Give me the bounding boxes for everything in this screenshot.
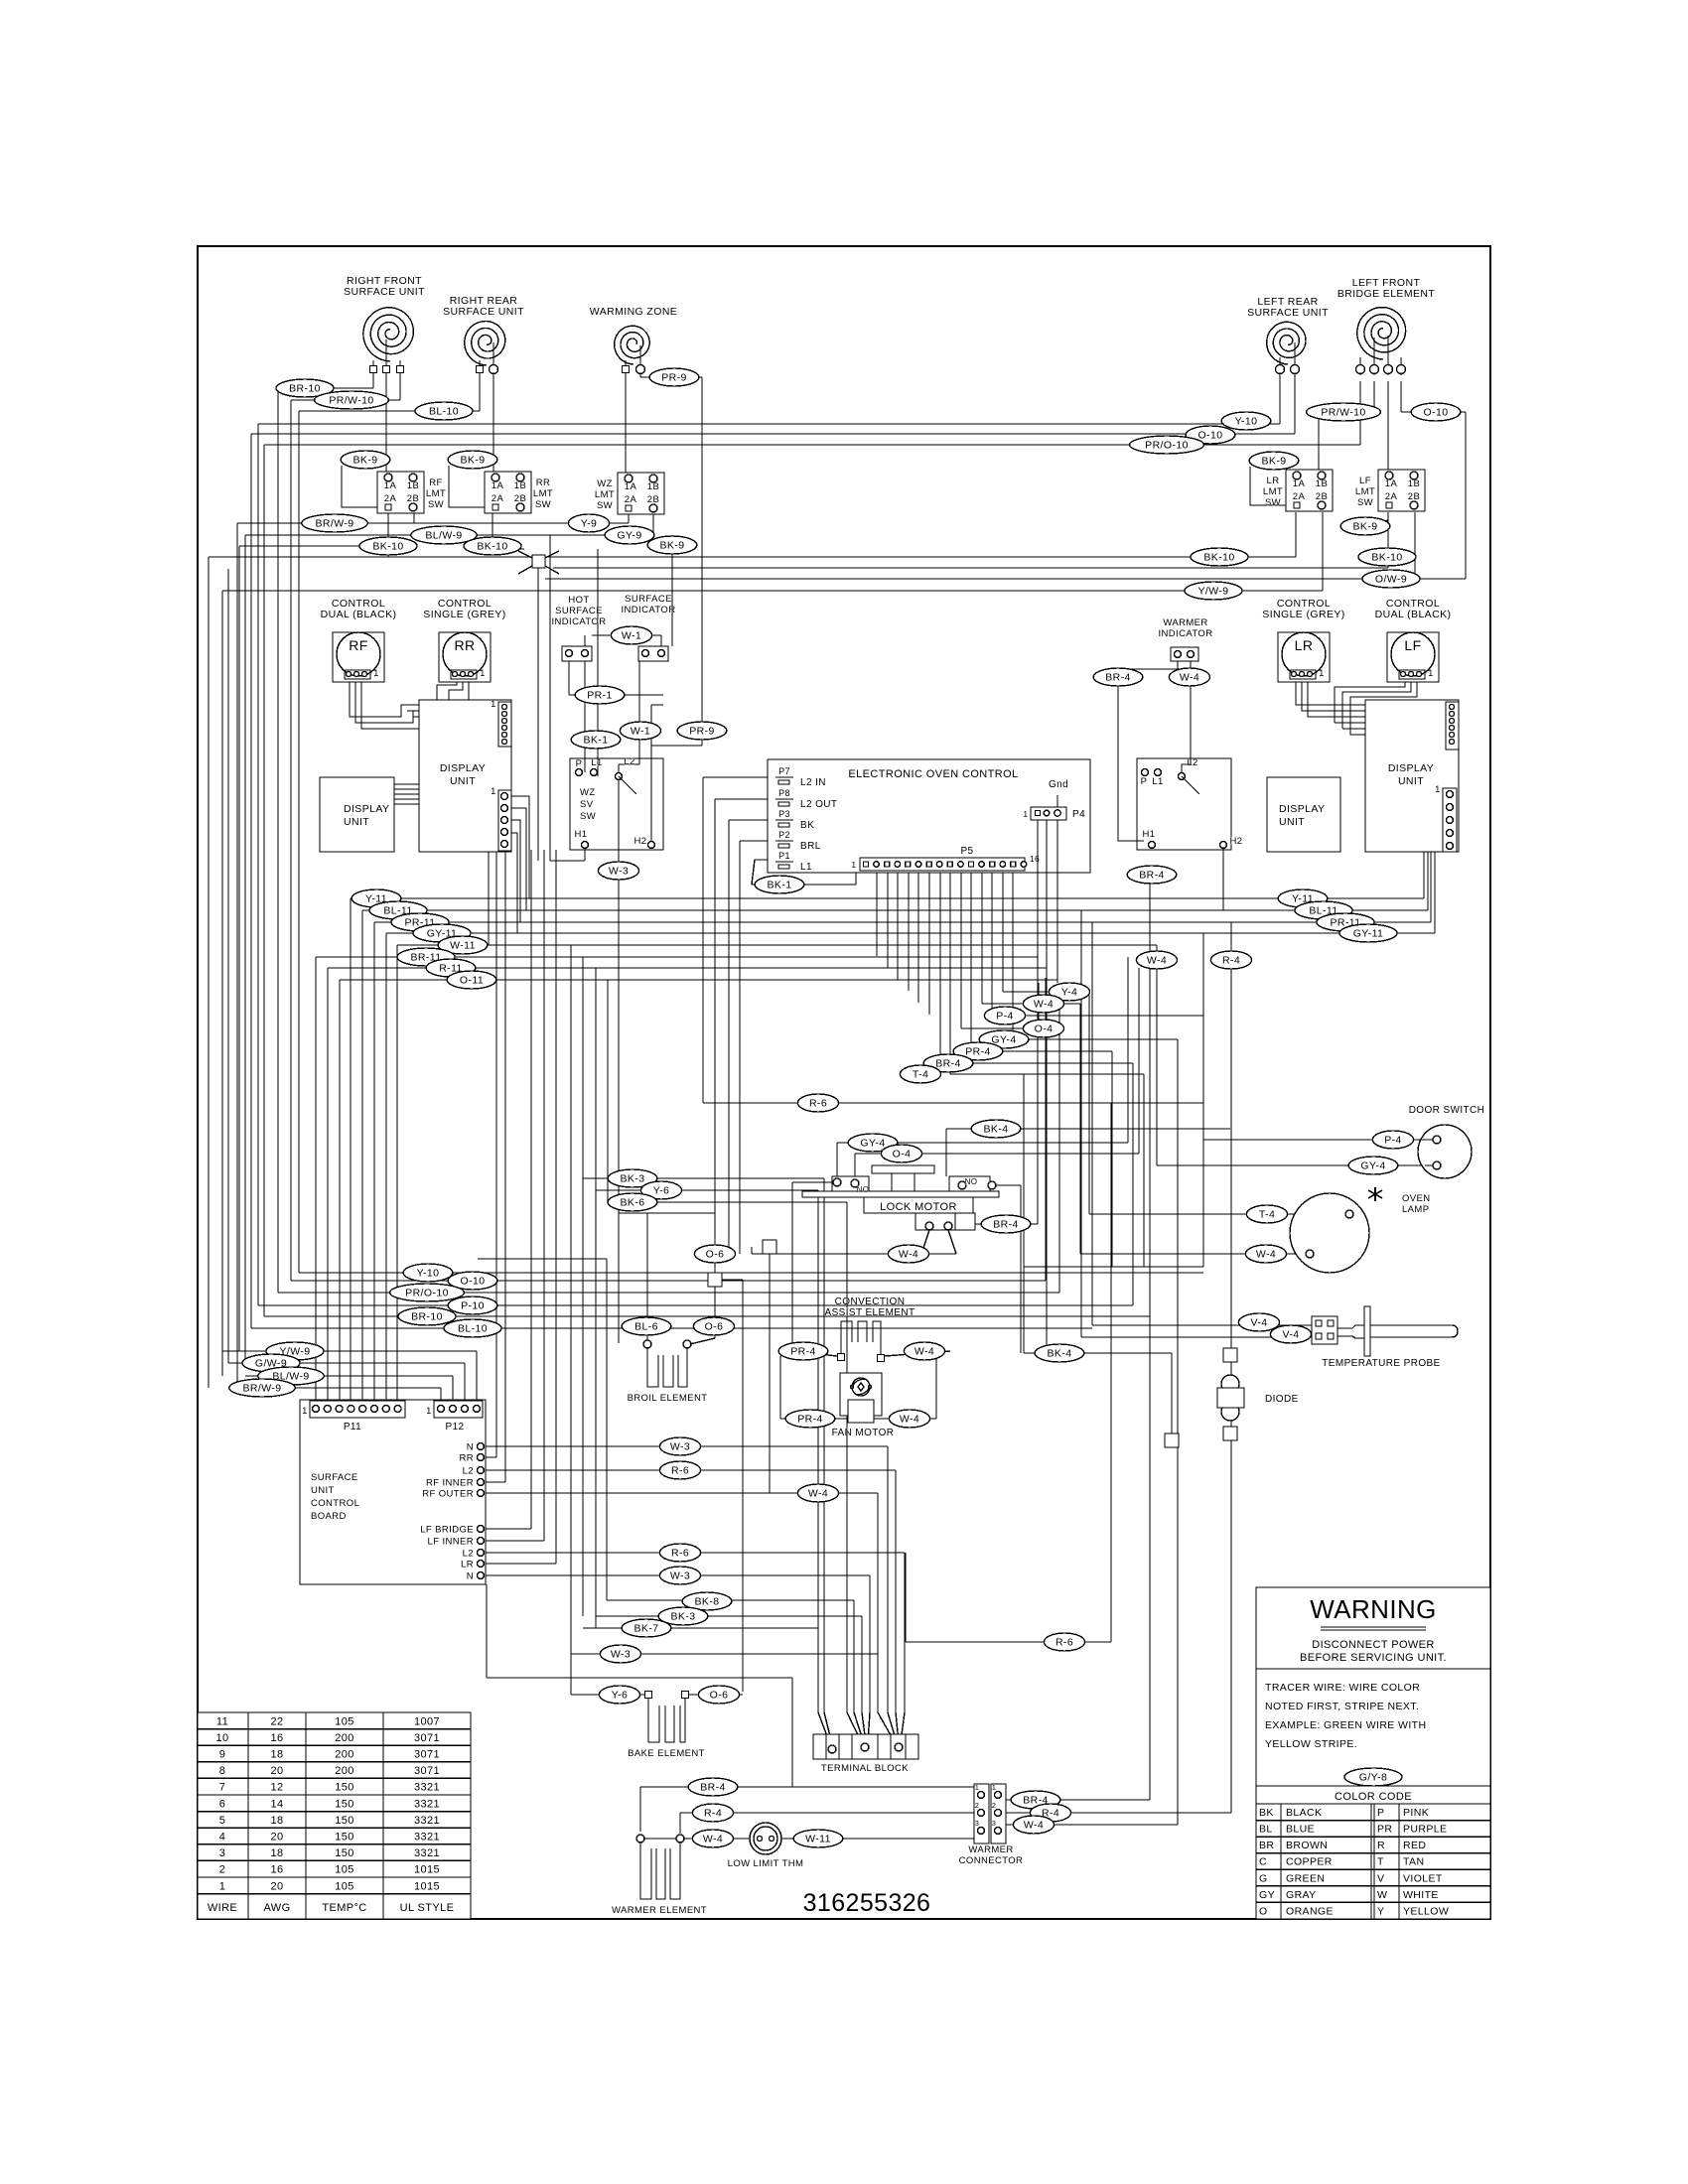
surface unit control board (300, 1400, 486, 1584)
svg-text:TERMINAL BLOCK: TERMINAL BLOCK (821, 1763, 909, 1774)
svg-text:SV: SV (580, 799, 594, 810)
wire center verticals to TB (887, 1446, 889, 1700)
wire label BK-9 (1249, 452, 1299, 470)
wire label BL-10 (444, 1319, 501, 1337)
svg-text:BR-4: BR-4 (935, 1058, 961, 1070)
wire LR control drop (1296, 670, 1311, 705)
svg-text:P5: P5 (960, 846, 973, 857)
wire O-4 lock row (855, 1153, 1139, 1155)
svg-text:SURFACE: SURFACE (311, 1472, 358, 1483)
svg-text:LMT: LMT (533, 488, 553, 499)
svg-text:BK-3: BK-3 (671, 1611, 696, 1623)
wire G/W-9 bottom row (228, 1362, 465, 1364)
wire label BL-11 (1295, 901, 1352, 919)
display unit left pin strip (498, 790, 511, 851)
wire W-4 warmer row (640, 1838, 751, 1840)
svg-text:2B: 2B (407, 493, 419, 504)
WZ SV SW switch box (570, 756, 663, 850)
wire label PR/O-10 (390, 1284, 465, 1301)
wire RR unit leads (479, 360, 481, 365)
wire P drop (584, 635, 586, 772)
svg-text:Y-6: Y-6 (653, 1185, 670, 1197)
wire LF BRIDGE up (481, 1528, 531, 1530)
svg-text:P11: P11 (344, 1422, 361, 1433)
svg-text:2: 2 (975, 1801, 980, 1810)
wire label GY-4 (979, 1030, 1029, 1048)
surface element spiral (363, 308, 414, 361)
svg-text:2A: 2A (384, 493, 397, 504)
svg-text:1: 1 (373, 668, 378, 678)
wire label BR-4 (981, 1215, 1031, 1233)
svg-text:WHITE: WHITE (1403, 1889, 1439, 1901)
WZ LMT SW limit switch (595, 473, 664, 514)
wire BL-11 row (362, 909, 1428, 911)
connector P5 (851, 846, 1040, 871)
svg-text:R: R (1377, 1840, 1385, 1851)
svg-text:LF INNER: LF INNER (428, 1537, 474, 1548)
svg-text:LAMP: LAMP (1402, 1204, 1429, 1215)
svg-text:PR-4: PR-4 (790, 1346, 816, 1358)
svg-text:20: 20 (270, 1880, 283, 1892)
wire label W-11 (438, 936, 488, 954)
wire label W-3 (600, 1645, 640, 1663)
svg-text:BK-1: BK-1 (768, 880, 792, 891)
svg-text:R-6: R-6 (671, 1465, 689, 1477)
svg-text:200: 200 (335, 1765, 354, 1777)
svg-text:8: 8 (219, 1765, 226, 1777)
svg-text:BK-7: BK-7 (634, 1623, 659, 1635)
wire label BK-6 (608, 1193, 657, 1211)
wire BK-8 row (607, 1599, 854, 1601)
svg-text:SURFACE UNIT: SURFACE UNIT (443, 306, 524, 318)
wire R-4 warmer row (680, 1812, 976, 1814)
wire BR-11 row (316, 956, 1038, 958)
svg-text:SINGLE (GREY): SINGLE (GREY) (423, 609, 505, 620)
svg-text:BK-9: BK-9 (1353, 521, 1378, 533)
svg-text:T-4: T-4 (913, 1069, 928, 1081)
svg-text:V: V (1377, 1872, 1384, 1884)
svg-text:2: 2 (992, 1801, 997, 1810)
wire label R-4 (692, 1804, 733, 1822)
wire BR/W-9 bottom row (237, 1387, 441, 1389)
wire junction row BK-10 right (388, 556, 1296, 558)
svg-text:PR/W-10: PR/W-10 (1321, 407, 1365, 419)
svg-text:3: 3 (219, 1847, 226, 1859)
svg-text:W: W (1377, 1889, 1387, 1901)
wire right box leads (1222, 849, 1224, 910)
wire label V-4 (1238, 1313, 1279, 1331)
svg-text:BK-4: BK-4 (1048, 1348, 1072, 1360)
wire Y-4 row (1003, 991, 1089, 993)
svg-text:W-11: W-11 (450, 940, 476, 952)
wire GY-11 row (386, 932, 1435, 934)
svg-text:BAKE ELEMENT: BAKE ELEMENT (628, 1748, 705, 1759)
svg-text:LMT: LMT (1263, 486, 1283, 497)
svg-text:V-4: V-4 (1251, 1317, 1268, 1329)
wire BK-9 hook RF (342, 466, 381, 507)
wire label P-4 (984, 1007, 1025, 1024)
wire label BR-11 (397, 948, 455, 966)
wire right sq junction tap (769, 1254, 771, 1493)
svg-text:W-4: W-4 (1256, 1249, 1276, 1261)
svg-text:O-10: O-10 (1198, 430, 1223, 442)
svg-text:H2: H2 (634, 836, 647, 847)
svg-text:SURFACE UNIT: SURFACE UNIT (344, 286, 425, 298)
control RR (423, 598, 505, 682)
wire label BK-10 (1358, 548, 1416, 566)
svg-text:W-4: W-4 (899, 1249, 918, 1261)
svg-text:DISPLAY: DISPLAY (1388, 762, 1434, 774)
svg-text:SURFACE: SURFACE (625, 594, 672, 605)
svg-text:SW: SW (1357, 497, 1373, 508)
wire BK-7 row (583, 1627, 818, 1629)
svg-text:W-4: W-4 (914, 1346, 934, 1358)
wire label PR-9 (677, 722, 727, 740)
connector square b (1223, 1427, 1237, 1440)
svg-text:CONVECTION: CONVECTION (835, 1297, 906, 1307)
wire label BR/W-9 (302, 514, 367, 532)
svg-text:RED: RED (1403, 1840, 1426, 1851)
svg-text:W-4: W-4 (1024, 1820, 1044, 1832)
svg-text:18: 18 (270, 1749, 283, 1761)
wire label Y-9 (568, 514, 609, 532)
svg-text:BK-9: BK-9 (1262, 456, 1287, 468)
svg-text:BROIL ELEMENT: BROIL ELEMENT (628, 1393, 708, 1404)
SUCB pins (420, 1442, 484, 1582)
warmer switch box right (1137, 757, 1242, 850)
svg-text:11: 11 (216, 1715, 228, 1727)
wire LR unit leads (1279, 357, 1281, 381)
convection assist element (825, 1297, 915, 1362)
wire label PR-11 (1317, 913, 1374, 931)
svg-text:GY: GY (1259, 1889, 1275, 1901)
wire broil feeder verticals (570, 945, 572, 1695)
wire broil sq junction tap (722, 1279, 743, 1281)
wire L2 row2 (481, 1552, 905, 1554)
svg-text:P-10: P-10 (461, 1300, 485, 1312)
svg-text:G: G (1259, 1872, 1268, 1884)
svg-text:L2: L2 (624, 756, 634, 767)
svg-text:UNIT: UNIT (450, 775, 476, 787)
wire label BK-10 (359, 537, 417, 555)
wire label PR-9 (649, 368, 699, 386)
wire BK-4 lock row (946, 1128, 1230, 1130)
wire RF OUTER row (481, 1492, 878, 1494)
wire W-4 right vertical (1156, 945, 1158, 1165)
svg-text:RF OUTER: RF OUTER (422, 1489, 474, 1500)
svg-text:3321: 3321 (414, 1782, 440, 1794)
svg-text:16: 16 (270, 1732, 283, 1744)
svg-text:P1: P1 (778, 851, 790, 861)
svg-text:LR: LR (1295, 637, 1314, 653)
svg-text:TRACER WIRE: WIRE COLOR: TRACER WIRE: WIRE COLOR (1265, 1682, 1420, 1694)
wire label PR-1 (575, 686, 625, 704)
svg-text:105: 105 (335, 1864, 354, 1876)
wire label BK-10 (1191, 548, 1248, 566)
wire BR-10 bottom row (264, 1315, 1150, 1317)
wire label R-6 (797, 1094, 838, 1112)
svg-text:BR-4: BR-4 (1105, 672, 1131, 684)
wire BK-9 SI vertical (671, 535, 673, 646)
svg-text:R-6: R-6 (809, 1098, 827, 1110)
wire P3 BK (729, 819, 789, 821)
svg-text:VIOLET: VIOLET (1403, 1872, 1443, 1884)
svg-text:W-3: W-3 (670, 1441, 690, 1453)
svg-text:105: 105 (335, 1715, 354, 1727)
svg-text:W-1: W-1 (622, 630, 641, 642)
svg-text:BK-9: BK-9 (660, 540, 685, 552)
svg-text:150: 150 (335, 1832, 354, 1843)
wire T-4 lamp row (1089, 1213, 1345, 1215)
svg-text:316255326: 316255326 (803, 1889, 931, 1917)
svg-text:INDICATOR: INDICATOR (1159, 628, 1213, 639)
warning box (1256, 1587, 1490, 1919)
wire label BR-4 (1127, 866, 1177, 884)
warmer connector (959, 1783, 1024, 1866)
wire label W-4 (797, 1484, 838, 1502)
svg-text:P: P (1377, 1807, 1384, 1819)
wire R-6 lock row (703, 1102, 1203, 1104)
wire BK-10 left vertical (387, 512, 389, 557)
svg-text:BRIDGE ELEMENT: BRIDGE ELEMENT (1337, 288, 1436, 300)
wire row 1276 (1024, 1266, 1203, 1268)
svg-text:1: 1 (491, 699, 495, 709)
wire label GY-11 (413, 924, 471, 942)
wire label O/W-9 (1362, 570, 1420, 588)
ribbon display unit small-left (394, 783, 419, 785)
wire label Y-10 (403, 1264, 453, 1282)
svg-text:1B: 1B (647, 481, 659, 492)
diode (1217, 1375, 1299, 1421)
wire W-4 lock row (752, 1253, 956, 1255)
surface element spiral (1267, 322, 1306, 364)
wire P8 L2 OUT (715, 798, 789, 800)
wire BK-9 hook LF (1370, 512, 1388, 526)
svg-text:W-4: W-4 (703, 1834, 723, 1845)
door switch (1409, 1105, 1485, 1178)
wire label W-4 (692, 1830, 733, 1847)
svg-text:2A: 2A (625, 494, 637, 505)
svg-text:COLOR CODE: COLOR CODE (1335, 1791, 1412, 1803)
svg-text:BL-6: BL-6 (634, 1321, 658, 1333)
svg-text:150: 150 (335, 1782, 354, 1794)
svg-text:BEFORE SERVICING UNIT.: BEFORE SERVICING UNIT. (1300, 1652, 1447, 1664)
svg-text:BK-10: BK-10 (1371, 552, 1402, 564)
svg-text:3321: 3321 (414, 1832, 440, 1843)
wire BR/W-9 Y-9 row (237, 522, 629, 524)
svg-text:LR: LR (461, 1560, 474, 1570)
wire label BK-3 (608, 1169, 657, 1187)
wire label BK-1 (571, 731, 621, 749)
wire label Y-4 (1049, 983, 1089, 1001)
svg-text:YELLOW: YELLOW (1403, 1905, 1449, 1917)
svg-text:YELLOW STRIPE.: YELLOW STRIPE. (1265, 1738, 1357, 1750)
wire gauge table (198, 1712, 471, 1919)
svg-text:2B: 2B (1316, 491, 1328, 502)
wire label W-3 (659, 1567, 700, 1584)
connector P12 (426, 1401, 483, 1433)
wire O/W-9 row (545, 578, 1466, 580)
svg-text:RF: RF (429, 478, 442, 488)
svg-text:C: C (1259, 1856, 1267, 1868)
control RF (321, 598, 397, 682)
svg-text:GREEN: GREEN (1286, 1872, 1325, 1884)
svg-text:BR/W-9: BR/W-9 (243, 1383, 282, 1395)
wire PR-1 to L1 (597, 695, 599, 776)
wire H2 vertical (650, 705, 652, 841)
wire Y-10 bottom row (299, 1272, 1203, 1274)
wire label O-10 (1411, 403, 1461, 421)
svg-text:PR: PR (1377, 1824, 1392, 1836)
svg-text:3071: 3071 (414, 1765, 440, 1777)
wire label T-4 (900, 1065, 940, 1083)
svg-text:W-3: W-3 (611, 1649, 631, 1661)
svg-text:H2: H2 (1230, 836, 1243, 847)
control LF (1375, 598, 1452, 682)
svg-text:1B: 1B (514, 480, 526, 491)
wire junction drop (537, 568, 539, 861)
fan motor (832, 1373, 895, 1438)
svg-text:1B: 1B (1316, 478, 1328, 489)
wire label BK-7 (622, 1619, 671, 1637)
svg-text:NOTED FIRST, STRIPE NEXT.: NOTED FIRST, STRIPE NEXT. (1265, 1701, 1419, 1712)
wire T-4 row (950, 1073, 1144, 1075)
wire label BL/W-9 (258, 1367, 324, 1385)
wire junction row 2 (553, 567, 1388, 569)
wire label W-4 (1023, 995, 1063, 1013)
svg-text:3: 3 (975, 1819, 980, 1828)
wire BL-10 bottom row (251, 1327, 1092, 1329)
wire label PR/W-10 (1307, 403, 1381, 421)
svg-text:9: 9 (219, 1749, 226, 1761)
svg-text:L2 IN: L2 IN (800, 777, 826, 788)
wire LF feed (1387, 381, 1389, 470)
wire label O-11 (447, 971, 496, 989)
wire P1 L1 loop (752, 860, 856, 885)
wire RF INNER up (481, 1481, 505, 1483)
wire L2 row (481, 1469, 896, 1471)
wire label W-4 (904, 1342, 944, 1360)
LF LMT SW limit switch (1355, 470, 1425, 511)
wire WZ unit leads (625, 360, 627, 365)
wire label W-4 (889, 1410, 929, 1428)
svg-text:BROWN: BROWN (1286, 1840, 1328, 1851)
wire W-4 row (982, 1003, 1080, 1005)
wire P2 BRL (740, 840, 789, 842)
svg-text:L2: L2 (463, 1466, 474, 1477)
wire PR-9 into junction (651, 745, 702, 747)
svg-text:RR: RR (536, 478, 551, 488)
wire label O-6 (698, 1686, 739, 1704)
wire label BL-6 (622, 1317, 671, 1335)
wire label BR/W-9 (229, 1379, 295, 1397)
svg-text:Y-6: Y-6 (612, 1690, 629, 1702)
wire label GY-4 (1348, 1157, 1398, 1174)
svg-text:BK-10: BK-10 (372, 541, 403, 553)
svg-text:TEMP°C: TEMP°C (322, 1902, 366, 1914)
svg-text:BRL: BRL (800, 841, 821, 852)
svg-text:O-10: O-10 (461, 1276, 486, 1288)
wire BR-4 row (940, 1062, 1133, 1064)
svg-text:DUAL (BLACK): DUAL (BLACK) (321, 609, 397, 620)
wire W-3 vertical (618, 776, 620, 1213)
svg-text:PR/O-10: PR/O-10 (1145, 440, 1189, 452)
svg-text:150: 150 (335, 1815, 354, 1827)
svg-text:H1: H1 (575, 829, 588, 840)
svg-text:O-10: O-10 (1424, 407, 1449, 419)
warmer indicator (1159, 617, 1213, 661)
svg-text:1015: 1015 (414, 1864, 440, 1876)
wire BR-4 right vertical (1149, 875, 1151, 1800)
surface indicator (622, 594, 676, 661)
svg-text:COPPER: COPPER (1286, 1856, 1333, 1868)
svg-text:W-1: W-1 (631, 726, 650, 738)
svg-text:P2: P2 (778, 830, 790, 840)
wire label BK-9 (1340, 517, 1390, 535)
wire Y-6 row upper (596, 1189, 818, 1191)
svg-text:INDICATOR: INDICATOR (552, 616, 607, 627)
wire L1 feed upper (597, 549, 599, 695)
wire label BR-4 (1093, 668, 1143, 686)
wire Y-11 row (351, 897, 1424, 899)
wire P5 to 4-series turns (939, 873, 941, 1063)
svg-text:R-4: R-4 (1222, 955, 1240, 967)
wire Y/W-9 row (222, 590, 1323, 592)
svg-text:P-4: P-4 (996, 1011, 1014, 1023)
wire N row2 (481, 1574, 870, 1576)
svg-text:BK-9: BK-9 (461, 455, 486, 467)
wire label BK-3 (658, 1607, 708, 1625)
broil element (628, 1340, 708, 1404)
svg-text:O/W-9: O/W-9 (1375, 574, 1407, 586)
svg-text:TAN: TAN (1403, 1856, 1424, 1868)
bake element (628, 1692, 705, 1760)
svg-text:LF BRIDGE: LF BRIDGE (420, 1525, 474, 1536)
svg-text:W-3: W-3 (609, 866, 629, 878)
svg-text:GRAY: GRAY (1286, 1889, 1317, 1901)
svg-text:SW: SW (1265, 497, 1281, 508)
svg-text:DISCONNECT POWER: DISCONNECT POWER (1312, 1639, 1435, 1651)
svg-text:2B: 2B (1408, 491, 1420, 502)
wire top bus O-10 (251, 433, 1295, 435)
svg-text:P4: P4 (1072, 809, 1085, 820)
svg-text:P: P (576, 758, 583, 769)
svg-text:OVEN: OVEN (1402, 1193, 1431, 1204)
svg-text:Y-10: Y-10 (417, 1268, 440, 1280)
svg-text:UL STYLE: UL STYLE (400, 1902, 455, 1914)
svg-text:PR-1: PR-1 (587, 690, 613, 702)
svg-text:PR-4: PR-4 (797, 1414, 823, 1426)
svg-text:LMT: LMT (426, 488, 446, 499)
junction bowtie (518, 551, 532, 558)
svg-text:P-4: P-4 (1384, 1135, 1402, 1147)
wire diode run R-4 (1230, 922, 1232, 1813)
svg-text:150: 150 (335, 1798, 354, 1810)
wire W-3 lower row (571, 1653, 878, 1655)
display unit left large (419, 700, 511, 852)
wire label R-6 (659, 1544, 700, 1562)
svg-text:20: 20 (270, 1765, 283, 1777)
svg-text:BK-10: BK-10 (477, 541, 507, 553)
svg-text:3071: 3071 (414, 1732, 440, 1744)
svg-text:BK: BK (800, 820, 814, 831)
svg-text:W-4: W-4 (1180, 672, 1199, 684)
wire warmer ind drops (1118, 661, 1178, 841)
wire PR/W-10 right (1373, 381, 1375, 412)
svg-text:TEMPERATURE PROBE: TEMPERATURE PROBE (1322, 1358, 1440, 1369)
color code table (1256, 1786, 1490, 1919)
wire PR-4 conv diag (792, 1351, 837, 1356)
